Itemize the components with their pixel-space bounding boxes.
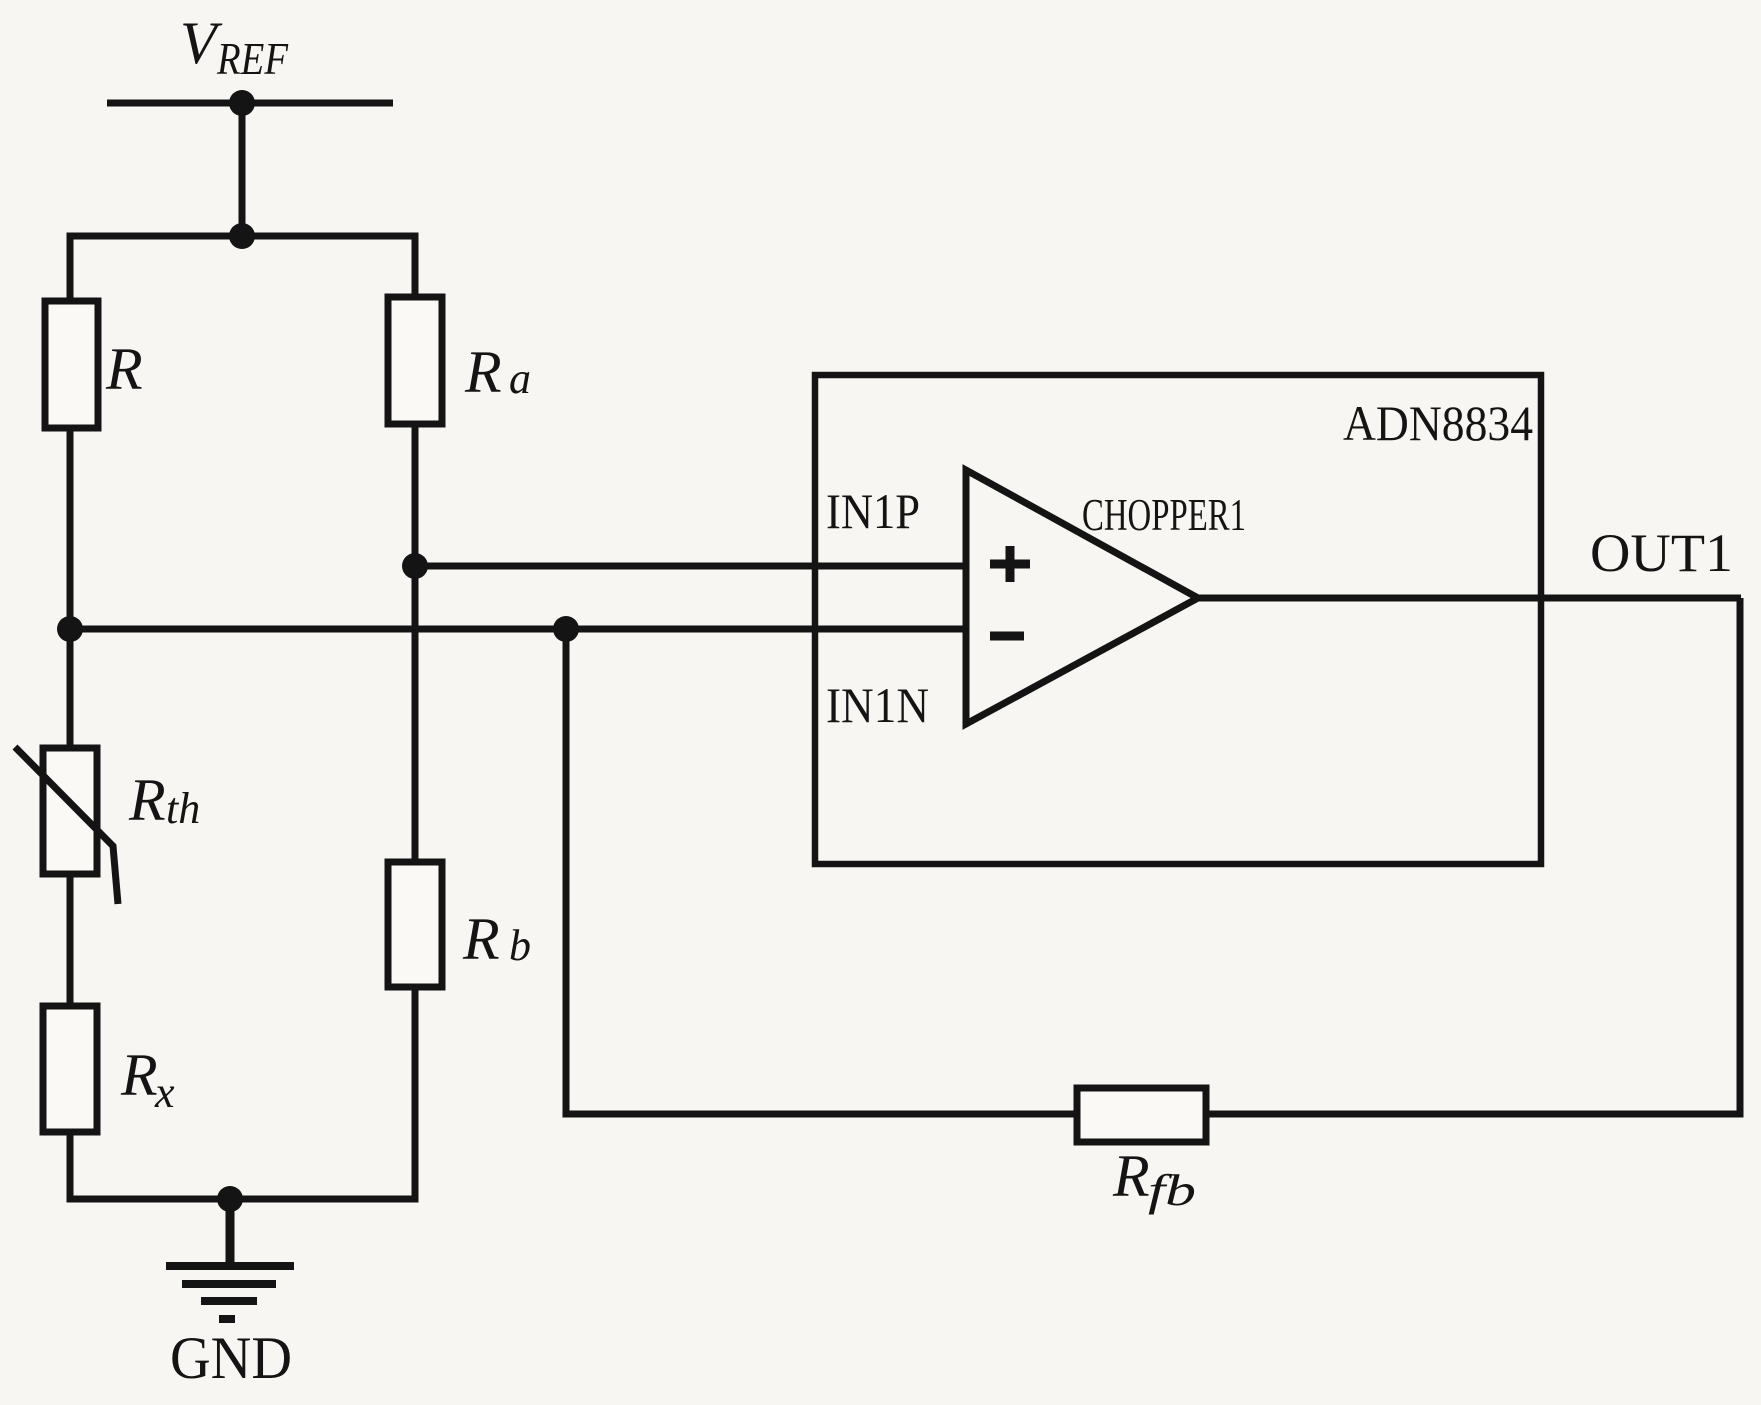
junction feedback tap on inverting net — [553, 616, 579, 642]
wire Rx bottom to ground rail and up to Rb — [70, 985, 415, 1199]
svg-text:GND: GND — [170, 1325, 292, 1391]
thermistor Rth body — [43, 748, 97, 874]
wire op-amp output to OUT1 — [1198, 595, 1741, 602]
wire node B to op-amp non-inverting input IN1P — [415, 563, 966, 570]
svg-text:OUT1: OUT1 — [1590, 523, 1733, 583]
svg-text:R: R — [105, 336, 143, 402]
wire Ra bottom through node B down to Rb — [412, 424, 419, 864]
VREF power rail — [107, 100, 393, 107]
wire node A to Rth top — [67, 629, 74, 750]
op-amp minus input marking — [990, 632, 1024, 641]
thermistor Rth diagonal stroke — [15, 747, 118, 904]
node B junction (non-inverting net) — [402, 553, 428, 579]
resistor Ra — [388, 297, 442, 424]
node A junction (left, inverting net) — [57, 616, 83, 642]
wire Rth bottom to Rx top — [67, 874, 74, 1008]
wire R bottom to node A — [67, 425, 74, 629]
wire node A to op-amp inverting input IN1N — [70, 626, 966, 633]
resistor R — [45, 301, 98, 428]
svg-text:IN1P: IN1P — [826, 483, 920, 539]
svg-text:CHOPPER1: CHOPPER1 — [1082, 490, 1246, 540]
ground — [226, 1199, 235, 1262]
op-amp U1 CHOPPER1 — [966, 470, 1198, 724]
IC box ADN8834 — [815, 375, 1541, 864]
resistor Rfb — [1077, 1088, 1206, 1142]
svg-text:IN1N: IN1N — [826, 677, 929, 733]
wire top node to R and Ra — [70, 236, 415, 302]
resistor Rx — [43, 1006, 97, 1132]
resistor Rb — [388, 862, 442, 987]
svg-text:ADN8834: ADN8834 — [1343, 395, 1533, 451]
junction on VREF rail — [229, 90, 255, 116]
junction ground node — [217, 1186, 243, 1212]
wire Rfb to output net — [1204, 598, 1740, 1114]
op-amp plus input marking — [990, 546, 1030, 582]
wire feedback tap down to Rfb — [566, 629, 1079, 1114]
junction divider top node — [229, 223, 255, 249]
wire VREF rail to divider top node — [239, 103, 246, 236]
